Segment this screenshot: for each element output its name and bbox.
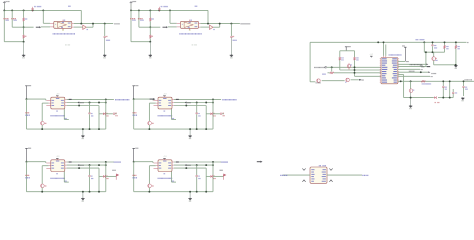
wire left rail: [26, 99, 28, 129]
junctions out rails: [89, 164, 91, 166]
wire into - input: [168, 26, 177, 28]
diode D led: [206, 175, 210, 177]
IC top power flag: [56, 96, 58, 97]
wire comparator out to gate: [74, 26, 83, 28]
rail end text: [464, 79, 467, 80]
global label DAC: [185, 101, 187, 103]
wire row 70: [340, 69, 381, 71]
wire row 76: [398, 75, 430, 77]
label output net: [240, 23, 243, 24]
wire out low: [67, 167, 99, 169]
junction divider mid: [149, 26, 151, 28]
IC reference U: [55, 173, 58, 174]
wire SWC row: [398, 68, 420, 70]
svg-text:-: -: [55, 26, 56, 29]
IC pins left: [154, 162, 159, 164]
junction: [148, 128, 150, 130]
junction: [133, 98, 135, 100]
divider labels R top: [130, 18, 131, 19]
ground right: [230, 54, 232, 57]
wire VCC drop to out rail: [207, 10, 209, 23]
top right cap 1: [432, 42, 434, 44]
IC reference U: [55, 110, 58, 111]
global label VBAT sense: [163, 26, 167, 28]
capacitor column A: [89, 165, 91, 175]
transistor Q: [148, 121, 152, 125]
wire bottom rail: [134, 128, 213, 130]
wire IC low pin down: [171, 109, 173, 120]
wire col down right: [403, 75, 405, 98]
led indicator right: [433, 52, 435, 57]
junctions out rails: [196, 102, 198, 104]
net tie dark: [69, 98, 72, 100]
left labels: [25, 112, 26, 113]
vertical from BAT jct: [331, 67, 333, 71]
column B wire: [205, 168, 207, 192]
gnd stem: [189, 129, 191, 135]
left labels: [133, 175, 134, 176]
cap mid: [452, 91, 454, 93]
wire left gnd stem: [149, 42, 151, 55]
pin texts: [311, 168, 314, 171]
IC value label: [157, 115, 160, 116]
buffer gate U2: [83, 25, 87, 29]
ground: [82, 197, 84, 200]
wire IC low pin down: [63, 109, 65, 120]
top right res 2: [455, 42, 457, 45]
power flag red right: [213, 175, 223, 177]
power flag +3V3 (driver 1): [25, 85, 28, 87]
power +BATT (block 1): [3, 2, 5, 4]
IC pins left: [154, 99, 159, 101]
svg-text:+3V3: +3V3: [163, 156, 167, 158]
wire left border vertical: [309, 42, 311, 82]
wire VCC drop to out rail: [80, 10, 82, 23]
resistor RA: [339, 57, 340, 60]
capacitor series right: [106, 113, 113, 115]
capacitor series right: [213, 113, 220, 115]
wire + input from VCC: [42, 10, 44, 23]
IC value label: [49, 178, 52, 179]
junction: [92, 23, 94, 25]
power flag +3V3 (driver 4): [132, 147, 135, 149]
label OUT PWM: [220, 161, 223, 162]
junction: [42, 9, 44, 11]
power flag +3V3 (driver 3): [25, 147, 28, 149]
junction: [230, 23, 232, 25]
faint note: [64, 44, 67, 45]
faint note: [191, 44, 194, 45]
transistor QA: [347, 64, 351, 68]
wire left rail down: [3, 10, 5, 41]
junction: [80, 23, 82, 25]
buffer gate U2: [210, 25, 214, 29]
svg-text:+3V3: +3V3: [370, 54, 374, 56]
column C wire: [212, 99, 214, 129]
wire out top: [67, 161, 114, 163]
gnd stem: [189, 192, 191, 198]
ground under QB: [410, 104, 412, 107]
wire top supply: [27, 98, 46, 100]
divider labels R top: [3, 18, 4, 19]
power flag +3V3 (driver 2): [132, 85, 135, 87]
transistor Q: [148, 184, 152, 188]
no-connect bottom pin: [189, 29, 190, 30]
junction: [11, 9, 13, 11]
svg-text:-: -: [182, 26, 183, 29]
wire T split: [340, 50, 355, 52]
wire IC in down to transistor: [149, 165, 155, 167]
global label DAC: [78, 101, 80, 103]
junction: [104, 23, 106, 25]
MCU top pins: [383, 56, 385, 58]
ground: [189, 197, 191, 200]
wire gate out up to out rail: [213, 26, 220, 28]
diode D led: [99, 175, 103, 177]
wire VCC rail: [4, 9, 81, 11]
driver IC U3: [51, 97, 65, 109]
junction: [26, 161, 28, 163]
wire top rail: [310, 41, 466, 43]
label comparator value: [179, 33, 180, 34]
wire left rail: [133, 162, 135, 192]
global label BAT_SENSE: [313, 67, 316, 68]
driver IC U3: [51, 160, 65, 172]
wire IC in down to transistor: [42, 165, 48, 167]
capacitor C bypass: [158, 7, 160, 9]
wire out mid with DAC label: [174, 102, 213, 104]
wire bottom rail: [27, 128, 106, 130]
column C wire: [212, 162, 214, 192]
ground: [189, 134, 191, 137]
wire top supply: [134, 98, 153, 100]
IC top power flag: [164, 158, 166, 159]
label C value: [33, 6, 36, 7]
junction: [32, 9, 34, 11]
op-amp comparator U1: [54, 21, 72, 28]
left labels: [133, 112, 134, 113]
wire row 76: [355, 75, 382, 77]
global label DAC: [78, 164, 80, 166]
wire out low: [67, 105, 99, 107]
capacitor C out: [230, 24, 232, 36]
MCU bottom out row: [398, 80, 474, 82]
wire RA down: [339, 60, 341, 70]
MCU right wires: [398, 60, 406, 62]
LED row bottom left: [310, 81, 315, 83]
junction: [158, 9, 160, 11]
wire out low: [174, 167, 206, 169]
wire left rail down: [130, 10, 132, 41]
capacitor C bypass: [32, 7, 34, 9]
wire left trunk: [283, 174, 310, 176]
transistor Q: [41, 121, 45, 125]
wire IC low pin down: [63, 172, 65, 183]
junction: [78, 167, 80, 169]
wire divider to comparator: [139, 26, 160, 28]
IC top power flag: [56, 158, 58, 159]
wire out mid with DAC label: [67, 164, 106, 166]
wire bottom rail: [134, 191, 213, 193]
IC reference U: [163, 173, 166, 174]
column C wire: [105, 162, 107, 192]
ground bottom right: [462, 96, 464, 99]
wire mid vertical: [138, 10, 140, 27]
wire bottom: [131, 41, 150, 43]
capacitor column A: [89, 103, 91, 113]
junction: [207, 23, 209, 25]
junction: [169, 9, 171, 11]
wire IC low pin down: [171, 172, 173, 183]
wire out top: [67, 98, 114, 100]
label comparator value: [53, 33, 54, 34]
wire row to diode: [404, 97, 434, 99]
power flag B over IC: [370, 55, 373, 57]
resistor R2 divider bottom: [23, 35, 24, 38]
wires MCU top to rail: [377, 41, 379, 43]
svg-text:+3V3: +3V3: [56, 156, 60, 158]
label OUT PWM: [221, 99, 224, 100]
wire out top: [174, 98, 221, 100]
wire output rail: [200, 22, 240, 24]
IC pins right: [65, 98, 67, 100]
label OUT PWM: [113, 161, 116, 162]
resistor RB: [354, 57, 355, 60]
wire left rail: [133, 99, 135, 129]
transistor QB: [410, 81, 412, 89]
label tp: [194, 6, 197, 7]
gnd stem: [82, 129, 84, 135]
top right res 1: [444, 42, 446, 45]
wire RB down: [354, 60, 356, 76]
capacitor C out: [104, 24, 106, 36]
junction: [41, 191, 43, 193]
bottom right caps: [442, 81, 444, 86]
label OUT PWM: [114, 99, 117, 100]
resistor R1 divider top: [23, 10, 25, 17]
global label VBAT sense: [36, 26, 40, 28]
wire BAT_SENSE row: [327, 66, 381, 68]
IC top power flag: [164, 96, 166, 97]
IC value label: [49, 115, 52, 116]
power flag red right: [106, 175, 116, 177]
wire divider to comparator: [12, 26, 33, 28]
op-amp comparator U1: [181, 21, 199, 28]
column C wire: [105, 99, 107, 129]
gnd stem: [82, 192, 84, 198]
junctions out rails: [89, 102, 91, 104]
global label DAC: [185, 164, 187, 166]
wire VBUS row: [398, 66, 427, 68]
junction: [138, 9, 140, 11]
column B wire: [205, 106, 207, 130]
ground right: [104, 54, 106, 57]
extra arrow into driver 4: [260, 161, 262, 163]
label right: [362, 175, 363, 176]
IC pins left: [46, 99, 51, 101]
IC reference U: [163, 110, 166, 111]
wire mid vertical: [11, 10, 13, 27]
column B wire: [98, 106, 100, 130]
wire comparator out to gate: [200, 26, 209, 28]
wire + input from VCC: [169, 10, 171, 23]
IC pins right: [65, 161, 67, 163]
cap right col: [463, 81, 465, 86]
wire output rail: [74, 22, 114, 24]
driver IC U3: [158, 97, 172, 109]
label sheet blue: [415, 39, 418, 40]
no-connect bottom pin: [62, 29, 63, 30]
driver IC U3: [158, 160, 172, 172]
column B wire: [98, 168, 100, 192]
label output net: [113, 23, 116, 24]
res bottom right on out row: [421, 81, 425, 83]
net tie dark: [69, 161, 72, 163]
wire right trunk: [327, 174, 362, 176]
wire out low: [174, 105, 206, 107]
wire left rail: [26, 162, 28, 192]
capacitor column A: [196, 103, 198, 113]
wire into - input: [41, 26, 50, 28]
power flag C right of IC: [404, 46, 407, 48]
wire out top: [174, 161, 221, 163]
ground: [82, 134, 84, 137]
label MCU value: [388, 54, 391, 55]
wire SWDIO row: [321, 74, 324, 75]
ground right of leds: [455, 64, 457, 67]
transistor Q: [41, 184, 45, 188]
wire bottom: [4, 41, 23, 43]
IC pin texts: [159, 162, 162, 165]
resistor R1 divider top: [149, 10, 151, 17]
wire VCC rail: [131, 9, 208, 11]
IC pins right: [172, 161, 174, 163]
wire bottom rail: [27, 191, 106, 193]
junction: [130, 9, 132, 11]
IC pins left: [46, 162, 51, 164]
right v marks: [329, 168, 332, 170]
IC pin texts: [52, 162, 55, 165]
label left: [280, 175, 281, 176]
label above: [318, 165, 321, 166]
extra arrow into driver 2: [153, 98, 155, 100]
junction: [148, 191, 150, 193]
svg-text:+3V3: +3V3: [56, 94, 60, 96]
capacitor column A: [196, 165, 198, 175]
power +BATT (block 2): [130, 2, 132, 4]
wire IC in down to transistor: [149, 102, 155, 104]
label tp: [67, 6, 70, 7]
ground left: [149, 54, 151, 57]
junction divider mid: [23, 26, 25, 28]
junction: [149, 9, 151, 11]
junction: [219, 23, 221, 25]
diode D led: [206, 113, 210, 115]
svg-text:+3V3: +3V3: [163, 94, 167, 96]
junction: [23, 9, 25, 11]
MCU IC U5: [381, 58, 398, 84]
junction: [78, 105, 80, 107]
IC pin texts: [52, 99, 55, 102]
MCU pin texts: [382, 58, 387, 59]
wire out mid with DAC label: [67, 102, 106, 104]
junction: [3, 9, 5, 11]
junction: [133, 161, 135, 163]
wire top supply: [134, 161, 153, 163]
junction: [185, 167, 187, 169]
diode D led: [99, 113, 103, 115]
junction: [26, 98, 28, 100]
wire bottom right row: [438, 97, 453, 99]
label C value: [160, 6, 163, 7]
diode right: [434, 96, 436, 98]
wire IC in down to transistor: [42, 102, 48, 104]
junction: [41, 128, 43, 130]
wire left gnd stem: [23, 42, 25, 55]
junction bottom: [149, 41, 151, 43]
junction bottom: [23, 41, 25, 43]
wire top supply: [27, 161, 46, 163]
global label SWD: [359, 79, 361, 81]
IC pin texts: [159, 99, 162, 102]
LED 2: [346, 78, 349, 81]
IC pins right: [172, 98, 174, 100]
resistor R2 divider bottom: [150, 35, 151, 38]
junctions out rails: [196, 164, 198, 166]
net tie dark: [176, 161, 179, 163]
power flag A: [345, 46, 348, 48]
wire 3V3 row: [398, 71, 428, 73]
junction: [185, 105, 187, 107]
left v marks: [302, 168, 305, 170]
IC value label: [157, 178, 160, 179]
wire out mid with DAC label: [174, 164, 213, 166]
wire gate out up to out rail: [86, 26, 93, 28]
connector J1: [310, 167, 327, 183]
net tie dark: [176, 98, 179, 100]
wire to gnd right: [434, 64, 456, 66]
wire loop top right: [423, 41, 425, 43]
ground left: [23, 54, 25, 57]
dark labels right middle: [420, 66, 423, 67]
left labels: [25, 175, 26, 176]
